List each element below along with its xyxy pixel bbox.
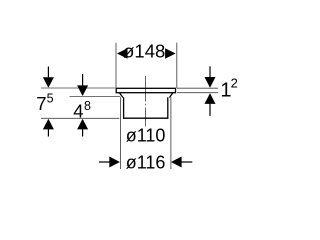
svg-text:8: 8 [84,99,91,113]
flange rim (ø148 top plate) [116,88,175,92]
dim 4.8 down arrow [82,74,84,86]
body bottom edge [123,117,168,119]
dim ø148 extension line right [176,43,178,88]
svg-text:2: 2 [231,76,238,91]
dim 1.2 up arrow [205,93,216,104]
dim 4.8 top extension line [70,96,121,98]
dim ø148 extension line left [115,43,117,88]
svg-text:7: 7 [36,93,46,114]
svg-text:4: 4 [73,101,83,122]
dim ø148 arrow left [117,48,128,59]
svg-text:ø110: ø110 [126,125,166,145]
centerline [145,76,147,127]
svg-text:ø148: ø148 [123,41,165,62]
body inner wall left (ø110) [123,97,125,119]
dim ø116 arrow left [99,161,110,163]
dim ø148 arrow right [165,48,176,59]
taper right [169,93,172,98]
body outer wall + extension left (ø116) [120,97,122,169]
dim 7.5/4.8 bottom extension line [41,117,119,119]
svg-text:ø116: ø116 [126,152,166,172]
taper left [120,93,123,98]
dim ø116 arrow right [171,157,182,168]
dim 4.8 up arrow [77,119,88,130]
dim 7.5 top extension line [41,87,115,89]
dim 1.2 extension line top (rim top plane) [177,87,218,89]
body outer wall + extension right (ø116) [170,97,172,169]
dim 1.2 extension line bottom (rim bottom plane) [177,92,218,94]
svg-text:5: 5 [47,91,54,105]
dim 7.5 down arrow [47,67,49,78]
body inner wall right (ø110) [167,97,169,119]
dim 7.5 up arrow [43,119,54,130]
dim 1.2 down arrow [209,66,211,77]
